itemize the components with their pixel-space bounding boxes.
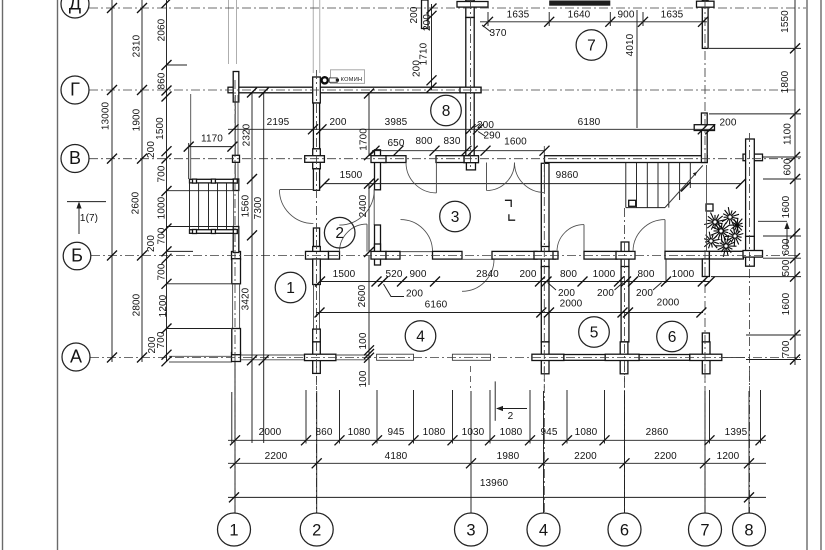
cross wall23 B vert: [375, 244, 381, 265]
wall axis6 B-A: [621, 267, 629, 342]
chain y281.5 ticks: [315, 277, 325, 287]
chain x369 G-V 1700: [368, 93, 370, 156]
window axis2 wall: [313, 285, 315, 330]
svg-text:9860: 9860: [556, 170, 579, 181]
wall A 639-690: [639, 355, 690, 361]
svg-text:В: В: [69, 148, 81, 168]
svg-text:7: 7: [700, 521, 709, 539]
svg-text:2600: 2600: [357, 284, 368, 307]
bottom axis dashes below A: [316, 366, 318, 388]
stair left bottom rail: [190, 230, 238, 234]
room circle 1: [275, 272, 306, 303]
svg-text:2: 2: [335, 225, 344, 242]
wall B 492-537: [492, 251, 537, 259]
chain y313 ticks: [315, 308, 325, 318]
stair right newel box: [629, 200, 636, 206]
cross axis1 x G: [233, 72, 239, 103]
svg-text:1600: 1600: [504, 137, 527, 148]
door axis2 V-B: [279, 190, 313, 224]
top ext ticks lines: [487, 12, 489, 26]
svg-text:2310: 2310: [132, 34, 143, 57]
svg-text:2200: 2200: [574, 451, 597, 462]
left chain line 13000: [111, 0, 113, 362]
double door V right: [515, 163, 545, 193]
axis line G horizontal: [89, 89, 795, 91]
svg-text:1395: 1395: [725, 427, 748, 438]
stair right treads: [625, 163, 627, 208]
wall B 553-557: [553, 251, 558, 259]
axis line V horizontal: [89, 158, 800, 160]
wall V 544-704: [545, 156, 708, 163]
svg-text:860: 860: [316, 427, 333, 438]
svg-text:200: 200: [477, 120, 494, 131]
svg-text:Д: Д: [69, 0, 81, 14]
door B 557-584: [557, 225, 584, 252]
drawing frame left lines: [2, 0, 4, 550]
svg-text:6: 6: [620, 521, 629, 539]
cross axis2 x B: [313, 247, 321, 267]
svg-text:5: 5: [590, 324, 599, 341]
window axis1 stair wall: [233, 191, 235, 227]
svg-text:700: 700: [157, 263, 168, 280]
svg-text:900: 900: [410, 269, 427, 280]
svg-text:1170: 1170: [201, 134, 223, 145]
chain y148.5 ticks: [370, 146, 380, 156]
wall B 433-462: [433, 251, 463, 259]
axis line 2 vertical: [316, 70, 318, 513]
svg-text:700: 700: [157, 227, 168, 244]
bottom fine chain ticks: [230, 435, 240, 445]
double door V left: [487, 163, 515, 191]
svg-text:1000: 1000: [593, 269, 616, 280]
svg-text:4: 4: [416, 328, 425, 345]
axis line 6 vertical: [624, 208, 626, 513]
stair left edge: [189, 179, 191, 233]
chain x252 ticks: [247, 88, 257, 98]
svg-text:КОМИН: КОМИН: [341, 77, 363, 83]
svg-text:6: 6: [668, 329, 677, 346]
corner axis1 x A: [232, 353, 241, 362]
chain line y148.5: [372, 150, 545, 152]
svg-text:200: 200: [520, 269, 537, 280]
wall axis2 above B: [313, 228, 319, 247]
wall axis7 top stub: [702, 0, 708, 48]
cross axis8 x B: [746, 236, 755, 266]
section mark 1(7) left: [67, 201, 106, 203]
svg-text:800: 800: [416, 136, 433, 147]
svg-text:1080: 1080: [575, 427, 598, 438]
svg-text:1100: 1100: [783, 123, 794, 145]
stair right arrow: [668, 172, 697, 204]
chain y183.5 ticks: [319, 179, 329, 189]
svg-text:4010: 4010: [625, 33, 636, 56]
corner axis1 x B: [232, 252, 241, 260]
axis line 3 vertical: [470, 0, 472, 167]
svg-text:2860: 2860: [646, 427, 669, 438]
chain line x431: [431, 4, 433, 90]
wall axis2 top stub: [422, 0, 429, 29]
stair well left wall line: [190, 94, 192, 179]
window stair ext lines: [167, 190, 234, 192]
dim 200 leader y290 a: [384, 284, 405, 297]
wall V 386-406: [384, 156, 407, 163]
stair left treads: [198, 183, 200, 230]
chain line x369 upper: [368, 184, 370, 252]
svg-text:1550: 1550: [780, 10, 791, 33]
terrace edge line x706.5: [706, 165, 708, 251]
joint axis1 x V: [233, 155, 240, 162]
bottom axis connector lines: [234, 391, 236, 513]
chain line x369 lower: [368, 256, 370, 385]
window axis1 wall: [232, 284, 234, 329]
svg-text:Г: Г: [70, 80, 80, 100]
stair left posts: [193, 179, 197, 183]
axis line 7 vertical: [704, 0, 706, 165]
svg-text:1800: 1800: [780, 70, 791, 93]
svg-text:1600: 1600: [781, 195, 792, 218]
svg-text:700: 700: [157, 165, 168, 182]
ext line building edge left: [231, 392, 233, 444]
chain y128.5 ticks: [229, 124, 239, 134]
svg-text:1000: 1000: [672, 269, 695, 280]
wall axis2 G-V: [313, 103, 319, 149]
bottom chain3 line: [228, 496, 766, 498]
right chain ticks: [790, 43, 800, 53]
left chain line fine: [166, 0, 168, 362]
axis circle 6: [608, 513, 641, 546]
ext lines below A left: [251, 362, 253, 443]
wall top filled segment: [549, 1, 610, 6]
wall axis4 above B: [541, 163, 549, 246]
stair right bottom edge: [626, 207, 665, 209]
wall axis7 B-A piece: [702, 333, 709, 342]
duct mark bottom: [509, 214, 515, 220]
wall axis8 V-B: [746, 139, 755, 236]
svg-text:1200: 1200: [717, 451, 740, 462]
svg-text:830: 830: [444, 136, 461, 147]
svg-text:1500: 1500: [340, 170, 363, 181]
komin label box: [331, 70, 365, 84]
svg-text:200: 200: [409, 6, 420, 23]
cross axis2 x G: [313, 77, 321, 103]
chain line y313: [316, 312, 703, 314]
svg-text:3420: 3420: [241, 287, 252, 310]
section mark right: [758, 220, 787, 222]
svg-text:800: 800: [560, 269, 577, 280]
axis circle 3: [455, 513, 488, 546]
svg-text:945: 945: [388, 427, 405, 438]
svg-text:900: 900: [618, 10, 635, 21]
svg-text:4180: 4180: [385, 451, 408, 462]
svg-text:200: 200: [146, 141, 157, 158]
axis circle B: [63, 242, 91, 270]
chain line y281.5: [320, 281, 711, 283]
svg-text:6160: 6160: [425, 300, 448, 311]
svg-text:1500: 1500: [155, 117, 166, 140]
svg-text:3: 3: [466, 521, 475, 539]
axis circle V: [61, 145, 89, 173]
svg-text:100: 100: [358, 370, 369, 387]
axis circle 4: [527, 513, 560, 546]
section mark 2 bottom: [494, 381, 496, 420]
axis circle 8: [733, 513, 766, 546]
axis line B horizontal: [91, 255, 800, 257]
wall axis7 V segment: [701, 113, 707, 163]
room circle 7: [576, 30, 607, 61]
chain x369 lower ticks: [364, 345, 374, 355]
svg-text:2800: 2800: [132, 293, 143, 316]
wall B 328-340: [329, 251, 340, 259]
door rooms23: [339, 190, 374, 225]
left ext line y252: [167, 250, 194, 252]
axis circle A: [62, 343, 90, 371]
window A 241-304: [241, 354, 305, 356]
cross axis6 x B: [621, 242, 629, 268]
dim 200 leader y290 c: [615, 283, 624, 291]
drawing frame right lines: [806, 0, 808, 550]
svg-text:1980: 1980: [497, 451, 520, 462]
svg-text:200: 200: [558, 288, 575, 299]
door B 340-367: [340, 224, 368, 252]
bottom fine chain line: [228, 439, 766, 441]
svg-text:200: 200: [412, 60, 423, 77]
chain x263.7 ticks: [259, 88, 269, 98]
svg-text:200: 200: [597, 288, 614, 299]
wall rooms23 lower: [375, 225, 381, 251]
wall B 665-710: [665, 251, 709, 259]
axis circle 1: [218, 513, 251, 546]
room circle 6: [657, 321, 688, 352]
wall axis4 B-A: [541, 267, 549, 342]
left fine chain ticks: [162, 0, 172, 8]
svg-text:А: А: [70, 347, 82, 367]
wall axis2 below V: [313, 169, 319, 191]
axis circle 2: [300, 513, 333, 546]
svg-text:2195: 2195: [267, 117, 290, 128]
svg-text:370: 370: [490, 28, 507, 39]
wall V left of axis8: [743, 154, 763, 161]
svg-text:2: 2: [312, 521, 321, 539]
bottom chain2 line: [228, 462, 766, 464]
svg-text:200: 200: [146, 235, 157, 252]
svg-text:8: 8: [442, 103, 451, 120]
svg-text:1(7): 1(7): [80, 213, 98, 224]
svg-text:1900: 1900: [132, 108, 143, 131]
svg-text:7: 7: [587, 37, 596, 54]
wall A right thin end: [722, 357, 745, 359]
wall axis2 below B: [313, 259, 321, 285]
svg-text:1030: 1030: [462, 427, 485, 438]
room circle 5: [579, 317, 610, 348]
svg-text:1000: 1000: [157, 196, 168, 219]
room circle 8: [431, 95, 462, 126]
svg-text:2400: 2400: [358, 194, 369, 217]
svg-text:2840: 2840: [476, 269, 499, 280]
wall axis3 vertical: [466, 18, 474, 156]
komin symbol: [322, 77, 328, 83]
cross axis3 x G: [460, 87, 481, 93]
cross axis2 x A: [313, 342, 321, 374]
axis line 1 vertical: [234, 80, 236, 513]
svg-text:200: 200: [147, 336, 158, 353]
window A rect1: [377, 354, 414, 360]
chain line x252: [251, 93, 253, 363]
svg-text:1080: 1080: [423, 427, 446, 438]
cross axis7 T joint: [694, 125, 714, 131]
chain line y183.5: [324, 183, 741, 185]
svg-text:2000: 2000: [259, 427, 282, 438]
svg-text:200: 200: [720, 118, 737, 129]
cross axis3 top: [466, 0, 474, 18]
left ext line y65: [167, 64, 188, 66]
dim 200 leader y290 b: [548, 283, 557, 291]
ghost wall above axis1: [228, 0, 230, 64]
dim 200 leader a: [475, 124, 480, 128]
dim 1170 line: [189, 146, 233, 148]
cross axis2 x V: [313, 149, 321, 169]
axis circle D: [61, 0, 89, 18]
axis line A horizontal: [90, 357, 800, 359]
right chain ext lines: [709, 47, 801, 49]
wall axis1 stair-B upper: [233, 179, 239, 191]
svg-text:1560: 1560: [241, 194, 252, 217]
svg-text:3: 3: [451, 209, 460, 226]
cross axis7 x A: [702, 342, 710, 374]
terrace edge left of axis1: [169, 355, 232, 357]
tree plant symbol: [715, 222, 723, 224]
svg-text:1: 1: [229, 521, 238, 539]
chain x431 ticks: [427, 4, 437, 14]
svg-text:1640: 1640: [568, 10, 591, 21]
svg-text:1600: 1600: [781, 292, 792, 315]
svg-text:1635: 1635: [661, 10, 684, 21]
svg-text:3985: 3985: [385, 117, 408, 128]
cross axis3 x V foot: [464, 156, 479, 163]
cross wall23 x V: [375, 150, 381, 190]
post box right of stair: [706, 204, 713, 211]
svg-text:520: 520: [386, 269, 403, 280]
axis circle G: [61, 76, 89, 104]
svg-text:2200: 2200: [654, 451, 677, 462]
svg-text:1080: 1080: [500, 427, 523, 438]
room circle 3: [440, 201, 471, 232]
svg-text:1: 1: [286, 280, 295, 297]
svg-text:700: 700: [781, 340, 792, 357]
svg-text:200: 200: [636, 288, 653, 299]
left chain line axes: [141, 0, 143, 362]
top chain ticks: [483, 17, 493, 27]
chain line y128.5: [228, 128, 714, 130]
wall G axis horizontal: [228, 87, 481, 93]
svg-text:Б: Б: [71, 246, 83, 266]
axis line 4 vertical: [543, 146, 545, 513]
svg-text:2060: 2060: [157, 18, 168, 41]
svg-text:500: 500: [781, 259, 792, 276]
svg-text:600: 600: [783, 158, 794, 175]
svg-text:2320: 2320: [242, 123, 253, 146]
svg-text:8: 8: [744, 521, 753, 539]
bottom fine ext lines: [305, 390, 307, 444]
svg-text:2000: 2000: [657, 298, 680, 309]
window A 336-367: [336, 354, 367, 356]
wall axis7 stub below B: [702, 259, 709, 277]
svg-text:13000: 13000: [101, 102, 112, 131]
door B 400-433: [401, 220, 433, 252]
svg-text:650: 650: [388, 138, 405, 149]
wall axis1 above A: [232, 329, 241, 355]
stair right diagonal: [665, 165, 703, 207]
bottom chain3 ticks: [229, 492, 239, 502]
chain line x263.7: [263, 93, 265, 363]
svg-text:290: 290: [484, 131, 501, 142]
cross wall23 x B: [371, 251, 386, 259]
door B 633-665: [633, 220, 665, 252]
svg-text:800: 800: [638, 269, 655, 280]
wall B 584-617: [584, 251, 617, 259]
svg-text:2600: 2600: [131, 191, 142, 214]
svg-text:13960: 13960: [480, 478, 509, 489]
svg-text:100: 100: [358, 332, 369, 349]
wall axis2 above A: [313, 329, 321, 342]
svg-text:2: 2: [508, 411, 514, 422]
svg-text:2200: 2200: [265, 451, 288, 462]
svg-text:860: 860: [157, 72, 168, 89]
wall V 436-464: [436, 156, 464, 163]
wall axis1 G-stair: [234, 95, 236, 179]
svg-text:1200: 1200: [158, 294, 169, 317]
door B 462-492 down: [462, 259, 494, 291]
svg-text:7300: 7300: [253, 196, 264, 219]
svg-text:600: 600: [781, 238, 792, 255]
top chain line: [480, 21, 707, 23]
room circle 4: [405, 321, 436, 352]
wall B 710-743: [709, 251, 743, 259]
cross axis4 x A: [541, 342, 549, 374]
svg-text:6180: 6180: [578, 117, 601, 128]
svg-text:2000: 2000: [560, 299, 583, 310]
axis circle 7: [689, 513, 722, 546]
svg-text:1635: 1635: [507, 10, 530, 21]
left chain axis ticks: [107, 3, 117, 13]
cross axis6 x A: [620, 342, 628, 374]
axis line 8 vertical: [749, 133, 751, 513]
cross axis4 x B: [541, 242, 549, 268]
wall B 386-400: [386, 251, 400, 259]
ext line x666: [665, 259, 667, 283]
door V 406-436: [406, 163, 436, 193]
stair left top rail: [190, 179, 238, 183]
svg-text:200: 200: [406, 289, 423, 300]
wall A 564-605: [564, 355, 605, 361]
svg-text:1500: 1500: [333, 269, 356, 280]
wall axis1 stair-B lower: [233, 227, 239, 253]
dim 370 leader: [482, 25, 491, 32]
window A rect2: [452, 354, 490, 360]
dim 4010 line: [636, 10, 638, 128]
svg-text:200: 200: [422, 14, 433, 31]
duct mark top: [505, 200, 511, 207]
axis line D horizontal: [89, 7, 806, 9]
svg-text:1700: 1700: [359, 128, 370, 151]
right chain line: [794, 0, 796, 365]
bottom chain2 ticks: [230, 458, 240, 468]
ghost wall above axis2: [312, 0, 314, 73]
svg-text:4: 4: [539, 521, 548, 539]
window ext lines left wall: [167, 283, 232, 285]
svg-text:1080: 1080: [348, 427, 371, 438]
svg-text:200: 200: [330, 117, 347, 128]
room circle 2: [324, 217, 355, 248]
